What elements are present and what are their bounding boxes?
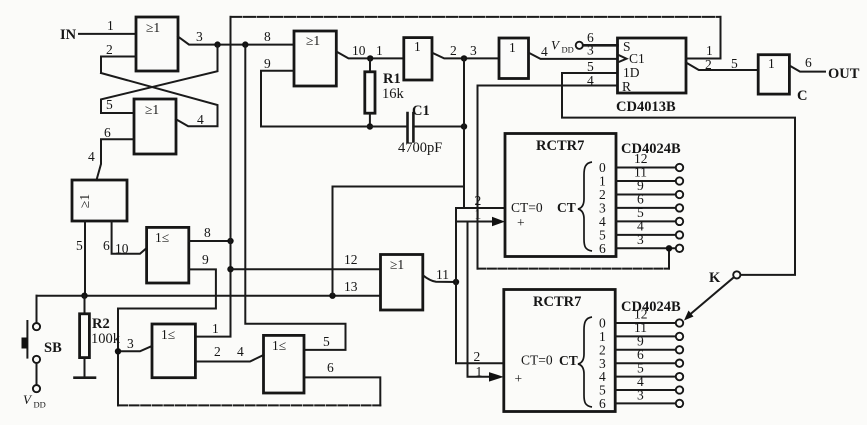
label R1 16k: [382, 71, 405, 102]
svg-text:1: 1: [476, 364, 483, 379]
pin 5 label of G6: [323, 334, 330, 349]
wire loop: gate G6 output 5 up to wire3 dot: [245, 45, 345, 350]
svg-text:6: 6: [599, 396, 606, 411]
svg-text:4700pF: 4700pF: [398, 140, 442, 156]
wire G4 pin 9 down-left to SB node: [118, 269, 380, 405]
wire cross-coupling: G2 output 4 up and diagonal to G1 pin 2: [101, 73, 218, 126]
wire node 3 vertical to counter CTR1 pin 2: [463, 58, 465, 208]
pin 4 label: [197, 112, 204, 127]
pin 3 label: [127, 336, 134, 351]
svg-text:RCTR7: RCTR7: [536, 138, 584, 154]
svg-text:5: 5: [76, 238, 83, 253]
wire gate F output 11: [423, 275, 456, 282]
svg-text:CT=0: CT=0: [521, 353, 553, 368]
CTR2 terminal circles: [676, 319, 683, 407]
wire pin 3 into G5: [118, 346, 152, 351]
counter CTR1 CD4024B: [505, 134, 616, 257]
svg-text:CD4013B: CD4013B: [616, 99, 676, 115]
svg-text:11: 11: [436, 267, 449, 282]
svg-text:≥1: ≥1: [145, 102, 159, 117]
svg-text:4: 4: [197, 112, 204, 127]
svg-text:3: 3: [470, 43, 477, 58]
label OUT: [828, 66, 860, 82]
svg-text:5: 5: [106, 97, 113, 112]
svg-text:5: 5: [731, 56, 738, 71]
gate G1 (OR >=1, latch top): [136, 17, 178, 71]
label CD4013B: [616, 99, 676, 115]
pin 1 label: [107, 18, 114, 33]
clock triangle CTR2: [489, 372, 504, 382]
svg-text:5: 5: [323, 334, 330, 349]
counter CTR2 CD4024B: [504, 290, 615, 412]
wire branch up to C1 node line: [333, 187, 465, 296]
svg-text:+: +: [517, 215, 525, 230]
wire FF output 1 to top rail: [686, 17, 721, 59]
resistor R2: [80, 296, 90, 378]
svg-text:16k: 16k: [382, 86, 405, 102]
pin 10 / 1 labels: [352, 43, 383, 58]
pin 6 label of gate G6: [327, 360, 334, 375]
wire FF output 2 to inverter U3: [686, 63, 758, 71]
wire CTR1 pin2: [456, 207, 505, 209]
label 4700pF: [398, 140, 442, 156]
svg-text:C: C: [797, 88, 807, 104]
wire node 11 vertical to counters: [456, 208, 504, 363]
resistor R1: [365, 58, 375, 126]
CTR2 pin number labels: [634, 307, 648, 403]
flip-flop FF CD4013B: [618, 38, 687, 94]
svg-text:1≤: 1≤: [161, 327, 175, 342]
ground: [75, 376, 96, 379]
gate G4 (NAND 1<=): [147, 227, 189, 283]
capacitor C1: [408, 113, 465, 141]
svg-text:DD: DD: [562, 45, 574, 55]
svg-text:R1: R1: [383, 71, 401, 87]
gate G2 (OR >=1, latch bottom): [134, 99, 176, 154]
pin 1 label CTR2: [476, 364, 483, 379]
wire pin 6 of G2 down to gate GR pin 4: [97, 139, 135, 180]
svg-text:CD4024B: CD4024B: [621, 141, 681, 157]
wire RC bottom line: [261, 126, 408, 128]
svg-text:4: 4: [88, 149, 95, 164]
svg-text:1≤: 1≤: [155, 230, 169, 245]
svg-text:12: 12: [344, 252, 358, 267]
svg-text:R2: R2: [92, 316, 110, 332]
pin 1 label of G5: [212, 321, 219, 336]
node dot vertical / wire 12: [227, 266, 233, 272]
gate G3 (OR >=1 top middle): [294, 31, 336, 86]
label SB: [44, 340, 62, 356]
pin 2 label CTR1: [475, 193, 482, 208]
svg-text:C1: C1: [629, 51, 645, 66]
svg-text:DD: DD: [34, 400, 46, 410]
label VDD bottom: [23, 392, 46, 410]
CTR1 output wires: [616, 168, 676, 249]
pin 4 label: [587, 73, 594, 88]
svg-text:3: 3: [587, 43, 594, 58]
wire R input of FF: [478, 86, 670, 269]
pin 2 label: [106, 42, 113, 57]
wire U3 output to OUT: [789, 66, 825, 72]
svg-text:6: 6: [599, 241, 606, 256]
svg-text:RCTR7: RCTR7: [533, 294, 581, 310]
label K: [709, 270, 721, 286]
svg-text:3: 3: [196, 29, 203, 44]
node dot inverter node: [461, 55, 467, 61]
wire G4 pin 8 to vertical rail: [189, 240, 231, 242]
wire pin 2 of G1 (from cross-coupling): [101, 57, 136, 74]
svg-text:2: 2: [705, 57, 712, 72]
pin 4 label of gate GR: [88, 149, 95, 164]
node dot pin8 / main vertical: [227, 238, 233, 244]
wire pin 3 output of G1: [178, 37, 294, 45]
pin 13 label: [344, 279, 358, 294]
svg-text:OUT: OUT: [828, 66, 860, 82]
svg-text:100k: 100k: [91, 331, 121, 347]
label R2 100k: [91, 316, 121, 347]
CTR1 terminal circles: [676, 164, 683, 252]
pin 11 label: [436, 267, 449, 282]
pin 5 label of GR: [76, 238, 83, 253]
node dot wire 11: [453, 279, 459, 285]
svg-text:1: 1: [376, 43, 383, 58]
wire U1 output: [432, 53, 499, 59]
svg-text:CT: CT: [557, 200, 576, 215]
pin 2 / 5 labels: [705, 56, 738, 72]
svg-text:≥1: ≥1: [77, 194, 92, 208]
CTR2 output wires: [615, 323, 676, 403]
node dot rail / branch up: [329, 293, 335, 299]
svg-text:1≤: 1≤: [272, 338, 286, 353]
wire clock rail to CTR2 pin1: [468, 222, 490, 377]
svg-text:≥1: ≥1: [390, 257, 404, 272]
svg-text:1: 1: [475, 207, 482, 222]
gate GR (OR >=1, rotated): [72, 180, 127, 221]
svg-text:4: 4: [541, 44, 548, 59]
svg-text:K: K: [709, 270, 721, 286]
svg-text:≥1: ≥1: [146, 20, 160, 35]
node dot wire3 / latch: [214, 41, 220, 47]
svg-text:+: +: [515, 371, 523, 386]
svg-text:1D: 1D: [623, 65, 640, 80]
pin 3 label: [587, 43, 594, 58]
node dot rail / R2: [81, 293, 87, 299]
svg-text:6: 6: [104, 125, 111, 140]
wire G3 pin 9 from RC node: [261, 71, 294, 127]
svg-text:8: 8: [204, 225, 211, 240]
node dot CTR1 pin3 wire: [666, 245, 672, 251]
pin 4 label: [541, 44, 548, 59]
pin 6 label: [805, 55, 812, 70]
svg-text:CT=0: CT=0: [511, 200, 543, 215]
switch SB: [22, 296, 41, 393]
wire long bottom rail SB to gate F pin 13: [37, 295, 381, 297]
label CD4024B (lower): [621, 299, 681, 315]
wire main left vertical (top rail to gate G5 pin 1): [195, 17, 230, 337]
svg-text:3: 3: [127, 336, 134, 351]
svg-text:13: 13: [344, 279, 358, 294]
svg-text:1: 1: [706, 43, 713, 58]
svg-text:2: 2: [106, 42, 113, 57]
inverter U3: [758, 55, 789, 94]
pin 6 label: [587, 30, 594, 45]
wire 12 to gate F: [231, 268, 381, 270]
pin 9 label of G3: [264, 56, 271, 71]
svg-text:6: 6: [103, 238, 110, 253]
wire G3 output 10: [336, 52, 404, 59]
pin 12 label: [344, 252, 358, 267]
svg-text:3: 3: [637, 232, 644, 247]
svg-text:1: 1: [212, 321, 219, 336]
wire U2 output 4 to FF clock: [529, 53, 618, 59]
node dot R1 bottom: [367, 123, 373, 129]
svg-text:10: 10: [352, 43, 366, 58]
pin 1 label: [706, 43, 713, 58]
wire GR output 6 to gate G4 pin 10: [112, 221, 147, 254]
switch K: [684, 271, 740, 320]
svg-text:1: 1: [107, 18, 114, 33]
svg-text:2: 2: [474, 349, 481, 364]
pin 2 label CTR2: [474, 349, 481, 364]
wire GR output 5 down to long rail: [84, 221, 86, 296]
svg-text:≥1: ≥1: [306, 33, 320, 48]
pin 6 label: [104, 125, 111, 140]
svg-text:IN: IN: [60, 27, 77, 43]
pin 9 label: [202, 252, 209, 267]
VDD terminal at FF S pin: [551, 38, 618, 55]
node dot SB/gate G5 pin3: [115, 348, 121, 354]
label C: [797, 88, 807, 104]
svg-text:9: 9: [264, 56, 271, 71]
node dot R1 top: [367, 55, 373, 61]
svg-text:1: 1: [768, 56, 775, 71]
svg-text:R: R: [622, 79, 631, 94]
pin 8 label: [204, 225, 211, 240]
wire G5 output 2 to gate G6 pin 4: [195, 355, 263, 362]
svg-text:9: 9: [202, 252, 209, 267]
svg-text:C1: C1: [412, 103, 430, 119]
gate G6 (NAND 1<=): [264, 335, 305, 393]
wire top feedback rail: [231, 16, 721, 18]
label IN: [60, 27, 77, 43]
svg-text:6: 6: [805, 55, 812, 70]
svg-text:2: 2: [214, 344, 221, 359]
svg-text:6: 6: [327, 360, 334, 375]
svg-text:CD4024B: CD4024B: [621, 299, 681, 315]
svg-text:4: 4: [237, 344, 244, 359]
label CD4024B (upper): [621, 141, 681, 157]
gate F (OR >=1 middle): [381, 255, 423, 311]
node dot C1 right: [461, 123, 467, 129]
pin 6 / 10 labels: [103, 238, 129, 256]
label C1: [412, 103, 430, 119]
svg-text:5: 5: [587, 59, 594, 74]
clock triangle CTR1: [492, 217, 505, 227]
svg-text:CT: CT: [559, 353, 578, 368]
CTR1 pin number labels: [634, 151, 648, 247]
gate G5 (NAND 1<=): [152, 324, 195, 378]
svg-text:1: 1: [509, 40, 516, 55]
inverter U1: [404, 38, 432, 80]
wire IN to gate G1 pin 1: [79, 33, 136, 35]
svg-text:SB: SB: [44, 340, 62, 356]
pin 5 label: [587, 59, 594, 74]
wire CTR1 pin1 clock: [456, 221, 492, 223]
wire cross-coupling: G1 output down and diagonal to G2 pin 5: [101, 45, 218, 113]
pin 2 / 4 labels: [214, 344, 244, 359]
wire 1D input of FF: [562, 73, 795, 275]
inverter U2: [499, 38, 529, 79]
pin 5 label: [106, 97, 113, 112]
pin 8 label (gate G3 input): [264, 29, 271, 44]
pin 1 label CTR1: [475, 207, 482, 222]
svg-text:3: 3: [637, 387, 644, 402]
pin 2 / 3 labels: [450, 43, 477, 58]
svg-text:1: 1: [414, 39, 421, 54]
svg-text:8: 8: [264, 29, 271, 44]
node dot wire3 / loop to gate J 5: [242, 41, 248, 47]
svg-text:2: 2: [450, 43, 457, 58]
pin 3 label: [196, 29, 203, 44]
